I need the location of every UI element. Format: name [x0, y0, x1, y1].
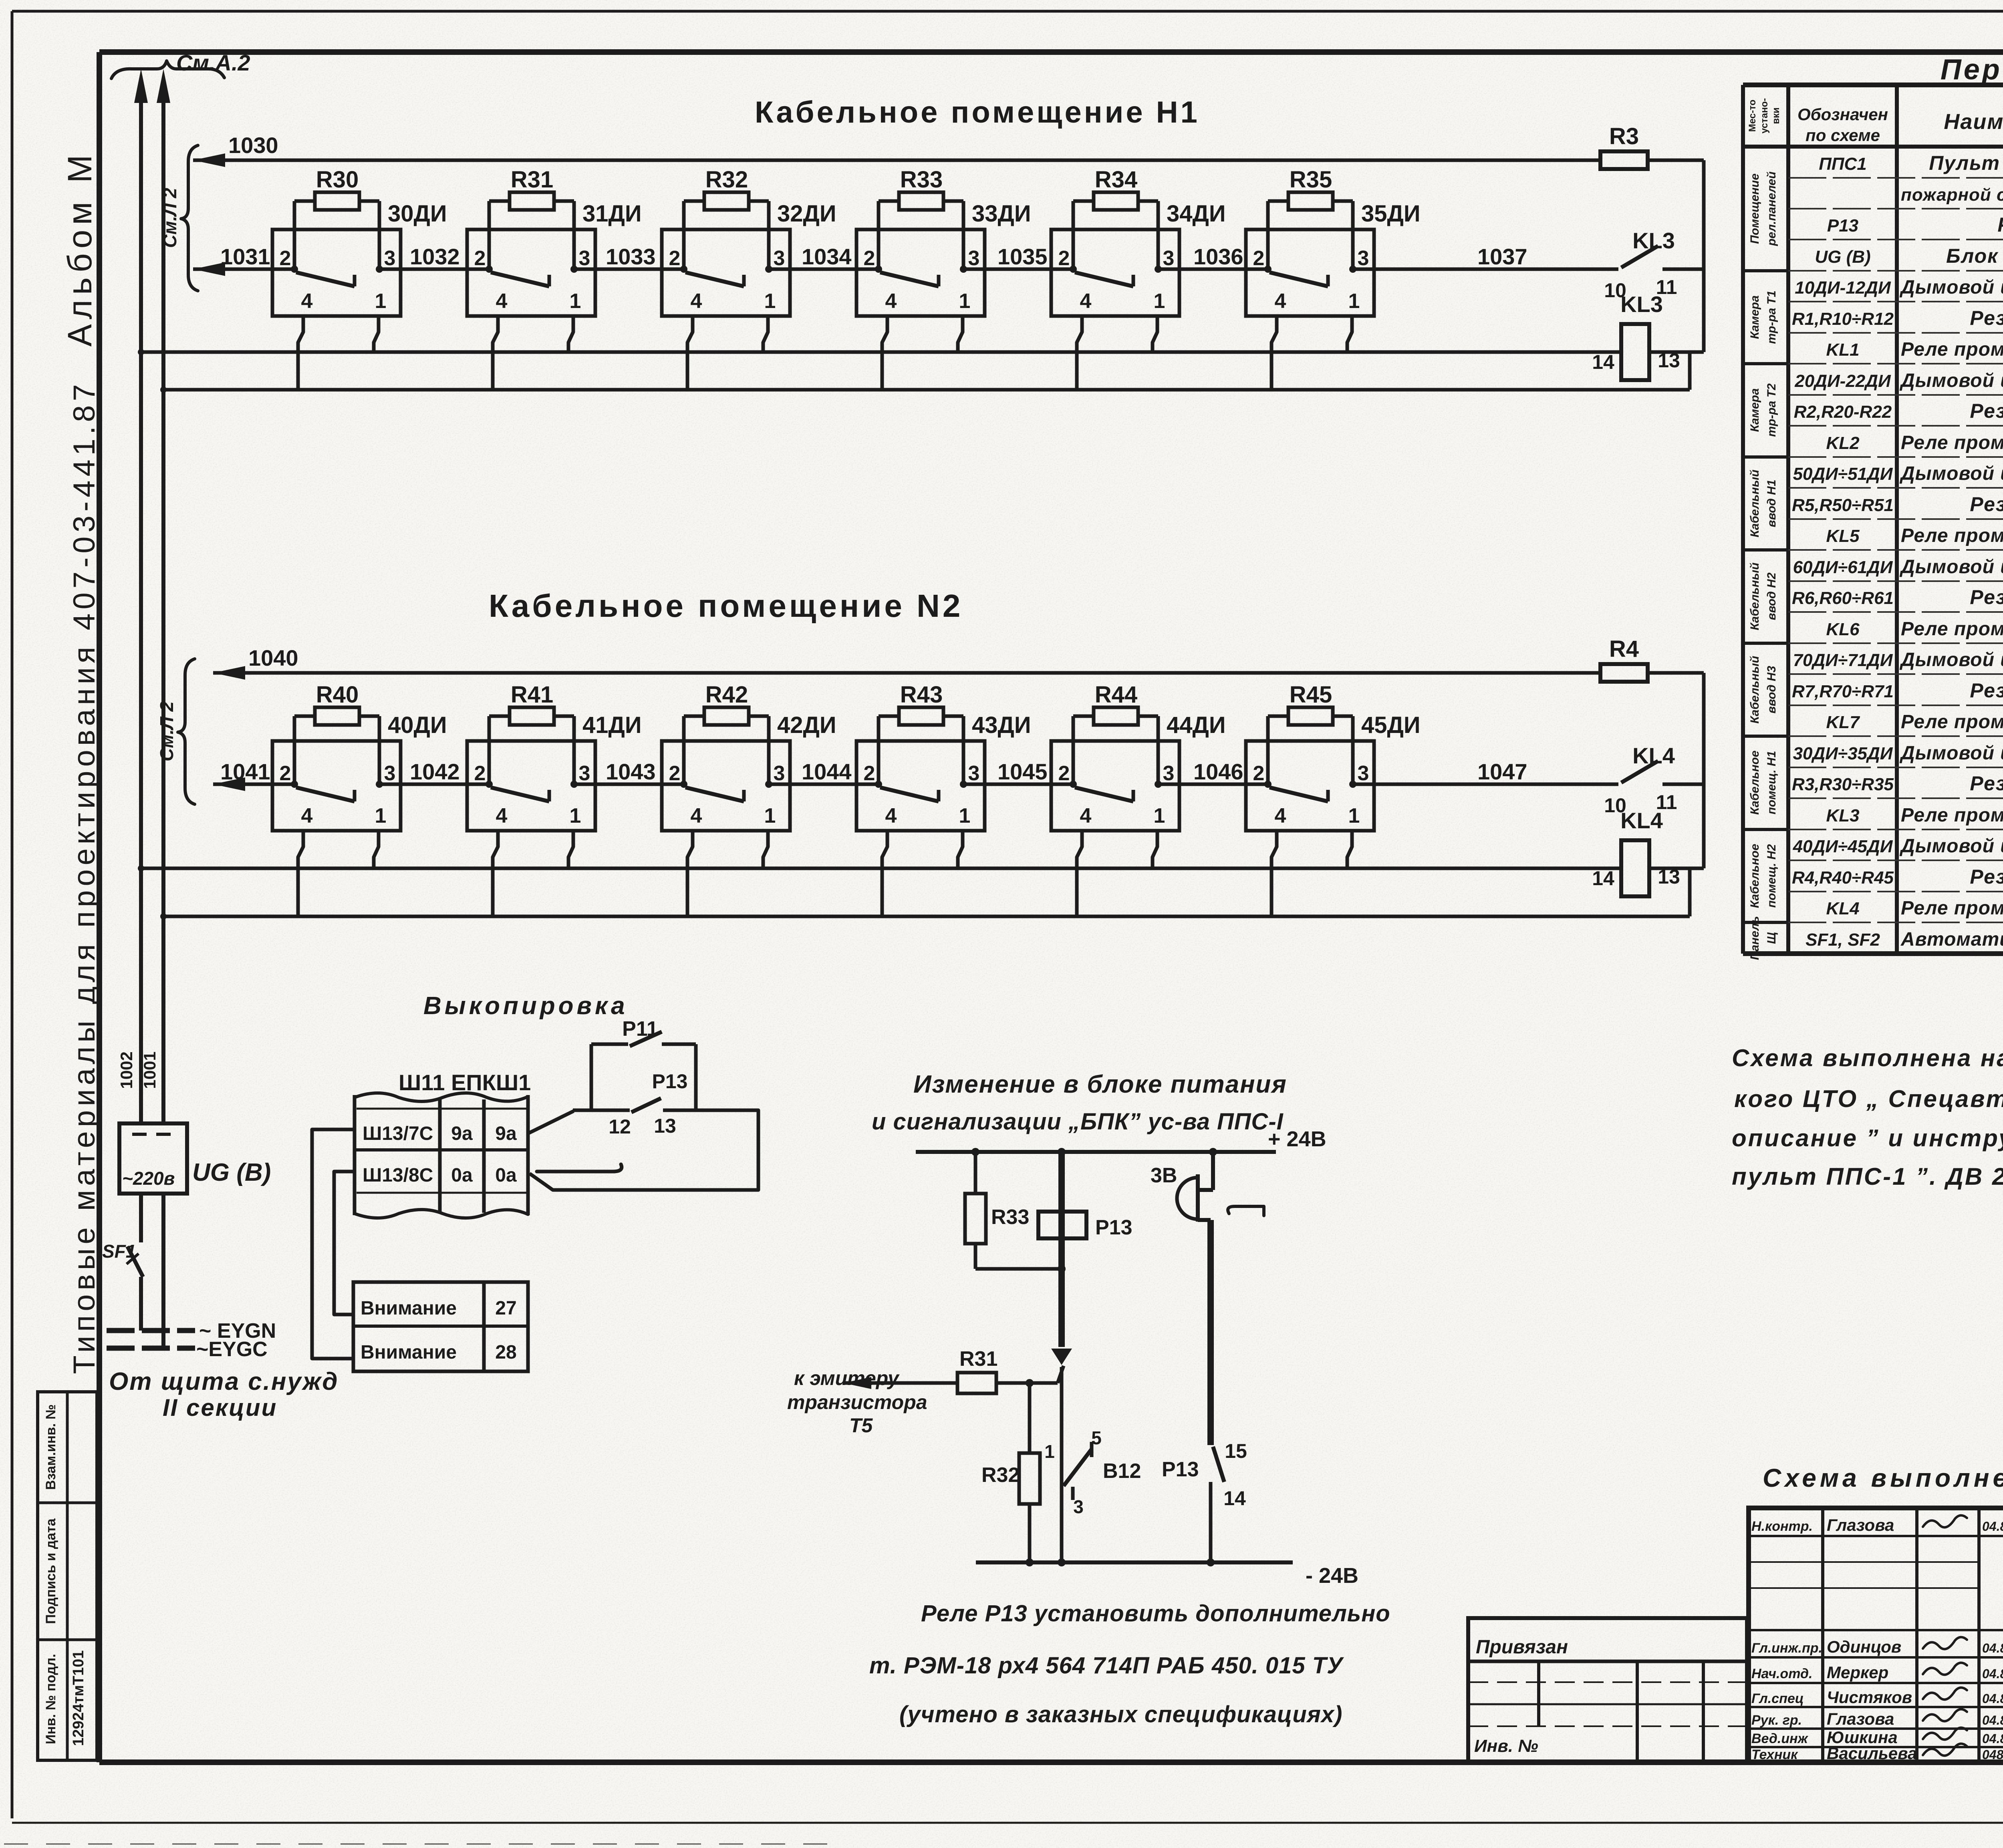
- svg-text:R3: R3: [1609, 123, 1639, 149]
- svg-text:04.87: 04.87: [1982, 1691, 2003, 1706]
- wire 9а to contact Р13: [528, 1111, 574, 1133]
- pin 1 lead of 42ДИ: [763, 831, 768, 868]
- svg-text:Реле промежуточное: Реле промежуточное: [1901, 618, 2003, 640]
- svg-text:помещ. Н1: помещ. Н1: [1765, 751, 1778, 815]
- wire 1047: [1353, 783, 1618, 786]
- node +24В rail: [916, 1150, 1276, 1154]
- svg-text:3: 3: [1358, 247, 1369, 270]
- svg-text:+ 24В: + 24В: [1268, 1127, 1326, 1151]
- svg-text:Резистор: Резистор: [1970, 772, 2003, 795]
- svg-text:1: 1: [570, 290, 581, 313]
- contact blade in detector 32ДИ: [685, 272, 744, 286]
- svg-text:1043: 1043: [606, 759, 656, 784]
- pin 4 lead of 43ДИ: [882, 831, 887, 916]
- relay coil KL3: [1621, 324, 1649, 380]
- svg-text:Камера: Камера: [1748, 295, 1761, 339]
- contact blade in detector 35ДИ: [1270, 272, 1328, 286]
- svg-text:R45: R45: [1290, 682, 1332, 708]
- svg-text:тр-ра Т2: тр-ра Т2: [1765, 383, 1778, 437]
- svg-text:UG (В): UG (В): [1815, 247, 1870, 267]
- svg-text:Кабельное помещение N2: Кабельное помещение N2: [489, 588, 963, 624]
- svg-text:Вед.инж: Вед.инж: [1751, 1731, 1809, 1746]
- svg-text:Гл.инж.пр.: Гл.инж.пр.: [1751, 1641, 1822, 1656]
- svg-text:1: 1: [375, 290, 387, 313]
- svg-text:R32: R32: [705, 167, 748, 193]
- svg-text:45ДИ: 45ДИ: [1361, 712, 1421, 738]
- svg-text:(учтено в заказных специфик: (учтено в заказных спецификациях): [899, 1701, 1342, 1727]
- smoke detector 42ДИ: [662, 741, 790, 831]
- svg-text:Изменение в блоке питания: Изменение в блоке питания: [913, 1071, 1287, 1098]
- wire 1033: [574, 268, 684, 271]
- resistor R41: [488, 716, 491, 784]
- svg-text:Одинцов: Одинцов: [1827, 1637, 1901, 1656]
- svg-text:12: 12: [609, 1115, 631, 1138]
- svg-text:KL4: KL4: [1826, 899, 1859, 918]
- pin 1 lead of 45ДИ: [1347, 831, 1352, 868]
- svg-text:Реле промежуточное: Реле промежуточное: [1901, 898, 2003, 919]
- svg-text:R7,R70÷R71: R7,R70÷R71: [1792, 682, 1894, 701]
- resistor R34: [1072, 201, 1075, 269]
- svg-text:Подпись и дата: Подпись и дата: [43, 1518, 58, 1624]
- svg-text:Ш13/8С: Ш13/8С: [363, 1165, 433, 1186]
- svg-text:От щита с.нужд: От щита с.нужд: [109, 1368, 339, 1395]
- svg-text:04.87: 04.87: [1982, 1641, 2003, 1655]
- pin 1 lead of 32ДИ: [763, 316, 768, 352]
- bus wire (upper) row 2: [141, 867, 1621, 870]
- contact blade in detector 30ДИ: [296, 272, 355, 286]
- svg-text:Наименование: Наименование: [1944, 110, 2003, 134]
- bus wire (lower) row 1: [163, 388, 1690, 392]
- resistor R30: [293, 201, 296, 269]
- svg-text:кого ЦТО „ Спецавтоматика” —: кого ЦТО „ Спецавтоматика” — „техническо…: [1734, 1085, 2003, 1112]
- svg-text:12924тмТ101: 12924тмТ101: [70, 1650, 87, 1746]
- pin 4 lead of 32ДИ: [687, 316, 693, 390]
- svg-text:3: 3: [384, 247, 396, 270]
- wire 1042: [379, 783, 489, 786]
- svg-text:40ДИ: 40ДИ: [388, 712, 447, 738]
- svg-text:1: 1: [1154, 804, 1165, 827]
- svg-text:Резистор: Резистор: [1970, 307, 2003, 329]
- svg-text:3: 3: [579, 762, 590, 785]
- svg-text:Дымовой извещатель: Дымовой извещатель: [1899, 649, 2003, 670]
- svg-text:Техник: Техник: [1751, 1747, 1798, 1762]
- svg-text:Мес-то: Мес-то: [1747, 100, 1758, 132]
- transistor B12: [1064, 1449, 1092, 1486]
- svg-text:2: 2: [669, 247, 681, 270]
- wire 1030: [193, 153, 225, 167]
- svg-text:Реле промежуточное: Реле промежуточное: [1901, 805, 2003, 826]
- svg-text:42ДИ: 42ДИ: [777, 712, 836, 738]
- smoke detector 32ДИ: [662, 229, 790, 316]
- svg-text:0487: 0487: [1982, 1747, 2003, 1762]
- svg-text:28: 28: [495, 1342, 516, 1363]
- svg-text:1032: 1032: [410, 244, 460, 269]
- svg-text:ввод Н1: ввод Н1: [1765, 479, 1778, 527]
- svg-text:Гл.спец: Гл.спец: [1751, 1691, 1804, 1706]
- svg-text:См.Л 2: См.Л 2: [156, 701, 177, 761]
- svg-text:Типовые материалы для проек: Типовые материалы для проектирования 407…: [67, 380, 101, 1374]
- pin 4 lead of 40ДИ: [298, 831, 303, 916]
- svg-text:UG (В): UG (В): [192, 1159, 271, 1186]
- svg-text:1034: 1034: [802, 244, 852, 269]
- smoke detector 31ДИ: [467, 229, 595, 316]
- svg-text:II секции: II секции: [163, 1394, 277, 1421]
- svg-text:- 24В: - 24В: [1306, 1564, 1358, 1588]
- pin 1 lead of 43ДИ: [958, 831, 963, 868]
- svg-text:Н.контр.: Н.контр.: [1751, 1519, 1813, 1534]
- svg-text:2: 2: [669, 762, 681, 785]
- svg-text:4: 4: [1080, 290, 1092, 313]
- svg-text:32ДИ: 32ДИ: [777, 201, 836, 227]
- svg-text:Альбом М: Альбом М: [61, 150, 99, 347]
- svg-text:R43: R43: [900, 682, 943, 708]
- svg-text:3: 3: [968, 762, 980, 785]
- svg-text:04.87: 04.87: [1982, 1519, 2003, 1534]
- riser wire 1001 (to sheet 2): [161, 100, 165, 1123]
- svg-text:Ш13/7С: Ш13/7С: [363, 1123, 433, 1144]
- svg-text:Ш11 ЕПКШ1: Ш11 ЕПКШ1: [399, 1070, 531, 1095]
- svg-text:пожарной сигнализации: пожарной сигнализации: [1901, 185, 2003, 205]
- left margin stamp boxes: [38, 1392, 97, 1760]
- svg-text:Реле Р13 установить дополнител: Реле Р13 установить дополнительно: [921, 1600, 1390, 1627]
- svg-text:1044: 1044: [802, 759, 852, 784]
- svg-text:R33: R33: [900, 167, 943, 193]
- svg-text:Инв. № подл.: Инв. № подл.: [43, 1654, 58, 1744]
- svg-text:2: 2: [1058, 762, 1070, 785]
- svg-text:R1,R10÷R12: R1,R10÷R12: [1792, 309, 1894, 329]
- thyristor symbol: [1051, 1349, 1072, 1365]
- title block signature columns: [1821, 1508, 1824, 1762]
- svg-text:R44: R44: [1095, 682, 1137, 708]
- pin 1 lead of 35ДИ: [1347, 316, 1352, 352]
- svg-text:4: 4: [1080, 804, 1092, 827]
- wire Ш13/8С to Внимание 27: [334, 1172, 355, 1315]
- resistor R31: [488, 201, 491, 269]
- svg-text:Щ: Щ: [1765, 932, 1778, 944]
- svg-text:Реле промежуточное: Реле промежуточное: [1901, 711, 2003, 733]
- svg-text:4: 4: [885, 290, 897, 313]
- svg-text:04.87: 04.87: [1982, 1731, 2003, 1746]
- wire 1040: [213, 666, 245, 680]
- svg-text:1: 1: [375, 804, 387, 827]
- svg-text:43ДИ: 43ДИ: [972, 712, 1031, 738]
- svg-text:См.Л 2: См.Л 2: [159, 188, 180, 248]
- smoke detector 33ДИ: [856, 229, 985, 316]
- svg-text:20ДИ-22ДИ: 20ДИ-22ДИ: [1794, 371, 1891, 391]
- svg-text:4: 4: [1275, 804, 1286, 827]
- svg-text:KL3: KL3: [1620, 292, 1663, 317]
- svg-text:SF1: SF1: [102, 1241, 136, 1262]
- smoke detector 45ДИ: [1246, 741, 1374, 831]
- svg-text:R4: R4: [1609, 636, 1639, 662]
- smoke detector 40ДИ: [272, 741, 401, 831]
- svg-text:Нач.отд.: Нач.отд.: [1751, 1666, 1812, 1681]
- svg-text:Р13: Р13: [652, 1070, 688, 1093]
- bus wire (lower) row 2: [163, 915, 1690, 918]
- table grid: [1741, 85, 1745, 954]
- svg-text:Помещение: Помещение: [1748, 173, 1761, 244]
- contact blade in detector 43ДИ: [880, 787, 939, 801]
- svg-text:1037: 1037: [1477, 244, 1527, 269]
- svg-text:3: 3: [774, 247, 785, 270]
- svg-text:3: 3: [1358, 762, 1369, 785]
- svg-text:Реле: Реле: [1997, 213, 2003, 236]
- svg-text:2: 2: [474, 247, 486, 270]
- svg-text:44ДИ: 44ДИ: [1167, 712, 1226, 738]
- svg-text:R5,R50÷R51: R5,R50÷R51: [1792, 495, 1894, 515]
- svg-text:Блок питания: Блок питания: [1946, 245, 2003, 267]
- return wire contact to 0а: [530, 1110, 758, 1190]
- svg-text:1045: 1045: [997, 759, 1048, 784]
- svg-text:2: 2: [1253, 247, 1265, 270]
- pin 4 lead of 31ДИ: [493, 316, 498, 390]
- svg-text:1002: 1002: [117, 1051, 136, 1089]
- svg-text:Глазова: Глазова: [1827, 1516, 1894, 1534]
- svg-text:15: 15: [1225, 1440, 1247, 1462]
- svg-text:30ДИ: 30ДИ: [388, 201, 447, 227]
- svg-text:Пульт приемный: Пульт приемный: [1929, 152, 2003, 174]
- svg-text:Р11: Р11: [622, 1017, 658, 1041]
- contact blade in detector 44ДИ: [1075, 787, 1133, 801]
- svg-text:1040: 1040: [248, 645, 298, 670]
- svg-text:4: 4: [301, 804, 313, 827]
- svg-text:Внимание: Внимание: [361, 1342, 457, 1363]
- svg-text:R34: R34: [1095, 167, 1137, 193]
- svg-text:1: 1: [570, 804, 581, 827]
- svg-text:R31: R31: [959, 1347, 997, 1371]
- svg-text:1: 1: [1348, 804, 1360, 827]
- svg-text:10ДИ-12ДИ: 10ДИ-12ДИ: [1795, 278, 1891, 298]
- svg-text:4: 4: [885, 804, 897, 827]
- svg-text:1031: 1031: [220, 244, 270, 269]
- svg-text:KL3: KL3: [1826, 806, 1859, 825]
- svg-text:~220в: ~220в: [122, 1168, 175, 1189]
- smoke detector 43ДИ: [856, 741, 985, 831]
- resistor R35: [1266, 201, 1270, 269]
- svg-text:9а: 9а: [451, 1123, 473, 1144]
- svg-text:1: 1: [764, 804, 776, 827]
- resistor R32: [1028, 1383, 1032, 1453]
- pin 4 lead of 30ДИ: [298, 316, 303, 390]
- resistor R33: [877, 201, 881, 269]
- svg-text:Дымовой извещатель: Дымовой извещатель: [1899, 835, 2003, 857]
- contact blade in detector 45ДИ: [1270, 787, 1328, 801]
- svg-text:Реле промежуточное: Реле промежуточное: [1901, 339, 2003, 360]
- svg-text:Привязан: Привязан: [1476, 1637, 1568, 1658]
- svg-text:Кабельное помещение Н1: Кабельное помещение Н1: [755, 95, 1200, 129]
- svg-text:2: 2: [864, 247, 875, 270]
- svg-text:KL3: KL3: [1632, 228, 1675, 253]
- terminal table Внимание 27/28: [353, 1282, 528, 1371]
- resistor R43: [877, 716, 881, 784]
- resistor R33: [974, 1152, 977, 1194]
- svg-text:Реле промежуточное: Реле промежуточное: [1901, 525, 2003, 546]
- svg-text:R3,R30÷R35: R3,R30÷R35: [1792, 775, 1894, 794]
- svg-text:по схеме: по схеме: [1806, 126, 1880, 145]
- svg-text:ППС1: ППС1: [1819, 154, 1867, 174]
- wire 1031: [193, 262, 225, 276]
- svg-text:4: 4: [496, 290, 508, 313]
- svg-text:ввод Н2: ввод Н2: [1765, 572, 1778, 620]
- svg-text:вки: вки: [1771, 107, 1781, 124]
- svg-text:Дымовой извещатель: Дымовой извещатель: [1899, 277, 2003, 298]
- svg-text:33ДИ: 33ДИ: [972, 201, 1031, 227]
- smoke detector 35ДИ: [1246, 229, 1374, 316]
- pin 4 lead of 41ДИ: [493, 831, 498, 916]
- svg-text:Рук. гр.: Рук. гр.: [1751, 1713, 1802, 1728]
- attachment box Привязан: [1468, 1618, 1747, 1762]
- svg-text:4: 4: [691, 290, 702, 313]
- contact blade in detector 40ДИ: [296, 787, 355, 801]
- wire 1043: [574, 783, 684, 786]
- svg-text:пульт ППС-1 ”. ДВ 2. 402.: пульт ППС-1 ”. ДВ 2. 402. 024ТО , 1976 г…: [1732, 1163, 2003, 1190]
- contact Р11: [590, 1044, 593, 1110]
- svg-text:1: 1: [1044, 1441, 1055, 1462]
- svg-text:Кабельный: Кабельный: [1748, 656, 1761, 723]
- svg-text:2: 2: [1058, 247, 1070, 270]
- svg-text:KL7: KL7: [1826, 713, 1860, 732]
- wire 1037: [1353, 268, 1618, 271]
- pin 1 lead of 34ДИ: [1153, 316, 1157, 352]
- svg-text:Схема выполнена на листах: Схема выполнена на листах 3, 4.: [1763, 1464, 2003, 1492]
- svg-text:14: 14: [1223, 1487, 1246, 1510]
- svg-text:1: 1: [1348, 290, 1360, 313]
- pin 1 lead of 40ДИ: [374, 831, 379, 868]
- svg-text:Обозначен: Обозначен: [1797, 105, 1888, 124]
- pin 1 lead of 31ДИ: [568, 316, 573, 352]
- svg-text:13: 13: [654, 1115, 676, 1137]
- svg-text:70ДИ÷71ДИ: 70ДИ÷71ДИ: [1793, 650, 1893, 670]
- svg-text:Взам.инв. №: Взам.инв. №: [43, 1404, 58, 1490]
- svg-text:40ДИ÷45ДИ: 40ДИ÷45ДИ: [1793, 837, 1893, 856]
- pin 1 lead of 44ДИ: [1153, 831, 1157, 868]
- svg-text:1: 1: [1154, 290, 1165, 313]
- svg-text:3: 3: [384, 762, 396, 785]
- contact blade in detector 34ДИ: [1075, 272, 1133, 286]
- svg-text:Панель: Панель: [1748, 916, 1761, 960]
- svg-text:Кабельное: Кабельное: [1748, 844, 1761, 908]
- svg-text:14: 14: [1592, 351, 1614, 373]
- svg-text:R42: R42: [705, 682, 748, 708]
- svg-text:1047: 1047: [1477, 759, 1527, 784]
- svg-text:2: 2: [864, 762, 875, 785]
- contact KL4 (line contact): [1621, 761, 1658, 783]
- svg-text:0а: 0а: [495, 1165, 517, 1186]
- svg-text:тр-ра Т1: тр-ра Т1: [1765, 290, 1778, 344]
- svg-text:Р13: Р13: [1827, 216, 1858, 236]
- pin 4 lead of 44ДИ: [1077, 831, 1082, 916]
- svg-text:Дымовой извещатель: Дымовой извещатель: [1899, 463, 2003, 484]
- svg-text:Выкопировка: Выкопировка: [423, 992, 628, 1020]
- svg-text:04.87: 04.87: [1982, 1713, 2003, 1727]
- corner wire at right end row 1: [1702, 160, 1706, 352]
- svg-text:транзистора: транзистора: [787, 1391, 927, 1413]
- table location column group lines: [1743, 145, 1788, 148]
- svg-text:1046: 1046: [1193, 759, 1243, 784]
- svg-text:R4,R40÷R45: R4,R40÷R45: [1792, 868, 1894, 888]
- svg-text:04.87: 04.87: [1982, 1667, 2003, 1681]
- svg-text:41ДИ: 41ДИ: [582, 712, 642, 738]
- power unit UG(B): [119, 1123, 187, 1194]
- svg-text:R40: R40: [316, 682, 359, 708]
- pin 1 lead of 30ДИ: [374, 316, 379, 352]
- svg-text:13: 13: [1658, 349, 1680, 372]
- svg-text:1042: 1042: [410, 759, 460, 784]
- corner wire at right end row 2: [1702, 673, 1706, 868]
- resistor R42: [682, 716, 686, 784]
- svg-text:34ДИ: 34ДИ: [1167, 201, 1226, 227]
- svg-text:Резистор: Резистор: [1970, 679, 2003, 702]
- svg-text:Внимание: Внимание: [361, 1298, 457, 1319]
- svg-text:Схема выполнена на основани: Схема выполнена на основании материала С…: [1732, 1045, 2003, 1071]
- svg-text:KL5: KL5: [1826, 526, 1860, 546]
- svg-text:3: 3: [1163, 247, 1175, 270]
- svg-text:Меркер: Меркер: [1827, 1663, 1888, 1682]
- wire 1041: [213, 777, 245, 791]
- svg-text:помещ. Н2: помещ. Н2: [1765, 844, 1778, 908]
- svg-text:0а: 0а: [451, 1165, 473, 1186]
- resistor R32: [682, 201, 686, 269]
- svg-text:R6,R60÷R61: R6,R60÷R61: [1792, 588, 1894, 608]
- svg-text:KL1: KL1: [1826, 340, 1859, 360]
- svg-text:2: 2: [280, 762, 291, 785]
- svg-text:Реле промежуточное: Реле промежуточное: [1901, 432, 2003, 453]
- svg-text:ввод Н3: ввод Н3: [1765, 666, 1778, 713]
- pin 4 lead of 34ДИ: [1077, 316, 1082, 390]
- contact Р13 (lower): [1207, 1220, 1214, 1445]
- smoke detector 44ДИ: [1051, 741, 1179, 831]
- relay coil Р13: [1058, 1152, 1065, 1347]
- svg-text:Автоматич. выключат: Автоматич. выключат: [1900, 929, 2003, 950]
- pin 4 lead of 45ДИ: [1272, 831, 1277, 916]
- contact KL3 (line contact): [1621, 246, 1658, 268]
- resistor R4: [1600, 664, 1648, 682]
- svg-text:R33: R33: [991, 1206, 1029, 1229]
- svg-text:и сигнализации „БПК” ус-ва ППС: и сигнализации „БПК” ус-ва ППС-I: [872, 1109, 1284, 1135]
- svg-text:R30: R30: [316, 167, 359, 193]
- wire 1035: [963, 268, 1073, 271]
- svg-text:Резистор: Резистор: [1970, 586, 2003, 608]
- svg-text:30ДИ÷35ДИ: 30ДИ÷35ДИ: [1793, 744, 1893, 763]
- resistor R31: [843, 1377, 871, 1389]
- svg-text:Васильева: Васильева: [1827, 1744, 1917, 1763]
- title block frame: [1749, 1508, 2003, 1762]
- pin 4 lead of 33ДИ: [882, 316, 887, 390]
- contact blade in detector 41ДИ: [491, 787, 549, 801]
- svg-text:Р13: Р13: [1095, 1216, 1132, 1239]
- bus wire (upper) row 1: [141, 350, 1621, 354]
- svg-text:Перечень аппаратуры: Перечень аппаратуры: [1941, 54, 2003, 86]
- resistor R44: [1072, 716, 1075, 784]
- resistor R40: [293, 716, 296, 784]
- svg-text:3В: 3В: [1151, 1164, 1177, 1187]
- svg-text:2: 2: [280, 247, 291, 270]
- svg-text:2: 2: [1253, 762, 1265, 785]
- smoke detector 30ДИ: [272, 229, 401, 316]
- relay coil KL4: [1621, 840, 1649, 896]
- svg-text:1030: 1030: [228, 133, 278, 158]
- svg-text:т. РЭМ-18 рх4 564 714П РАБ: т. РЭМ-18 рх4 564 714П РАБ 450. 015 ТУ: [869, 1653, 1344, 1679]
- svg-text:KL4: KL4: [1632, 743, 1675, 768]
- riser wire 1002 (to sheet 2): [139, 100, 143, 1123]
- svg-text:50ДИ÷51ДИ: 50ДИ÷51ДИ: [1793, 464, 1893, 484]
- node -24В rail: [976, 1560, 1293, 1564]
- resistor R3: [1600, 151, 1648, 169]
- svg-text:Кабельный: Кабельный: [1748, 469, 1761, 537]
- svg-text:Кабельный: Кабельный: [1748, 562, 1761, 630]
- svg-text:3: 3: [1163, 762, 1175, 785]
- svg-text:5: 5: [1091, 1427, 1102, 1448]
